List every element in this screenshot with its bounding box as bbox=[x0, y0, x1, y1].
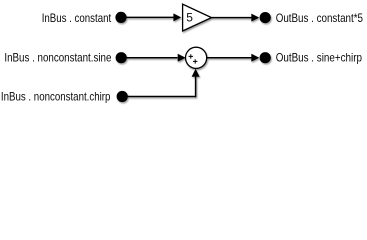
output port node OutBus.sine+chirp bbox=[260, 52, 271, 63]
svg-text:OutBus . constant*5: OutBus . constant*5 bbox=[276, 11, 364, 25]
svg-text:5: 5 bbox=[186, 10, 193, 24]
svg-text:OutBus . sine+chirp: OutBus . sine+chirp bbox=[276, 51, 363, 65]
wire from sum block to OutBus.sine+chirp port bbox=[207, 57, 252, 59]
wire from InBus.nonconstant.sine port to sum block bbox=[121, 57, 177, 59]
input port node InBus.nonconstant.chirp bbox=[117, 91, 128, 102]
arrowhead into sum block bottom input bbox=[192, 69, 200, 77]
gain block U1 value 5 bbox=[183, 4, 212, 31]
svg-text:InBus . nonconstant.sine: InBus . nonconstant.sine bbox=[4, 51, 111, 65]
sum block U2 bbox=[186, 47, 207, 68]
plus sign for sum left input bbox=[189, 54, 193, 58]
arrowhead into OutBus.sine+chirp port bbox=[251, 54, 259, 62]
output port node OutBus.constant*5 bbox=[260, 12, 271, 23]
input port node InBus.constant bbox=[115, 12, 126, 23]
input port node InBus.nonconstant.sine bbox=[116, 52, 127, 63]
wire from InBus.constant port to gain block bbox=[121, 16, 174, 18]
plus sign for sum bottom input bbox=[193, 59, 197, 63]
svg-text:InBus . nonconstant.chirp: InBus . nonconstant.chirp bbox=[1, 89, 111, 103]
wire from gain block to OutBus.constant*5 port bbox=[212, 17, 252, 19]
arrowhead into sum block left input bbox=[178, 54, 186, 62]
wire vertical segment up to sum block bottom input bbox=[195, 77, 197, 98]
arrowhead into gain block bbox=[173, 13, 181, 21]
wire horizontal segment from InBus.nonconstant.chirp port bbox=[122, 96, 195, 98]
svg-text:InBus . constant: InBus . constant bbox=[42, 11, 112, 25]
arrowhead into OutBus.constant*5 port bbox=[251, 14, 259, 22]
